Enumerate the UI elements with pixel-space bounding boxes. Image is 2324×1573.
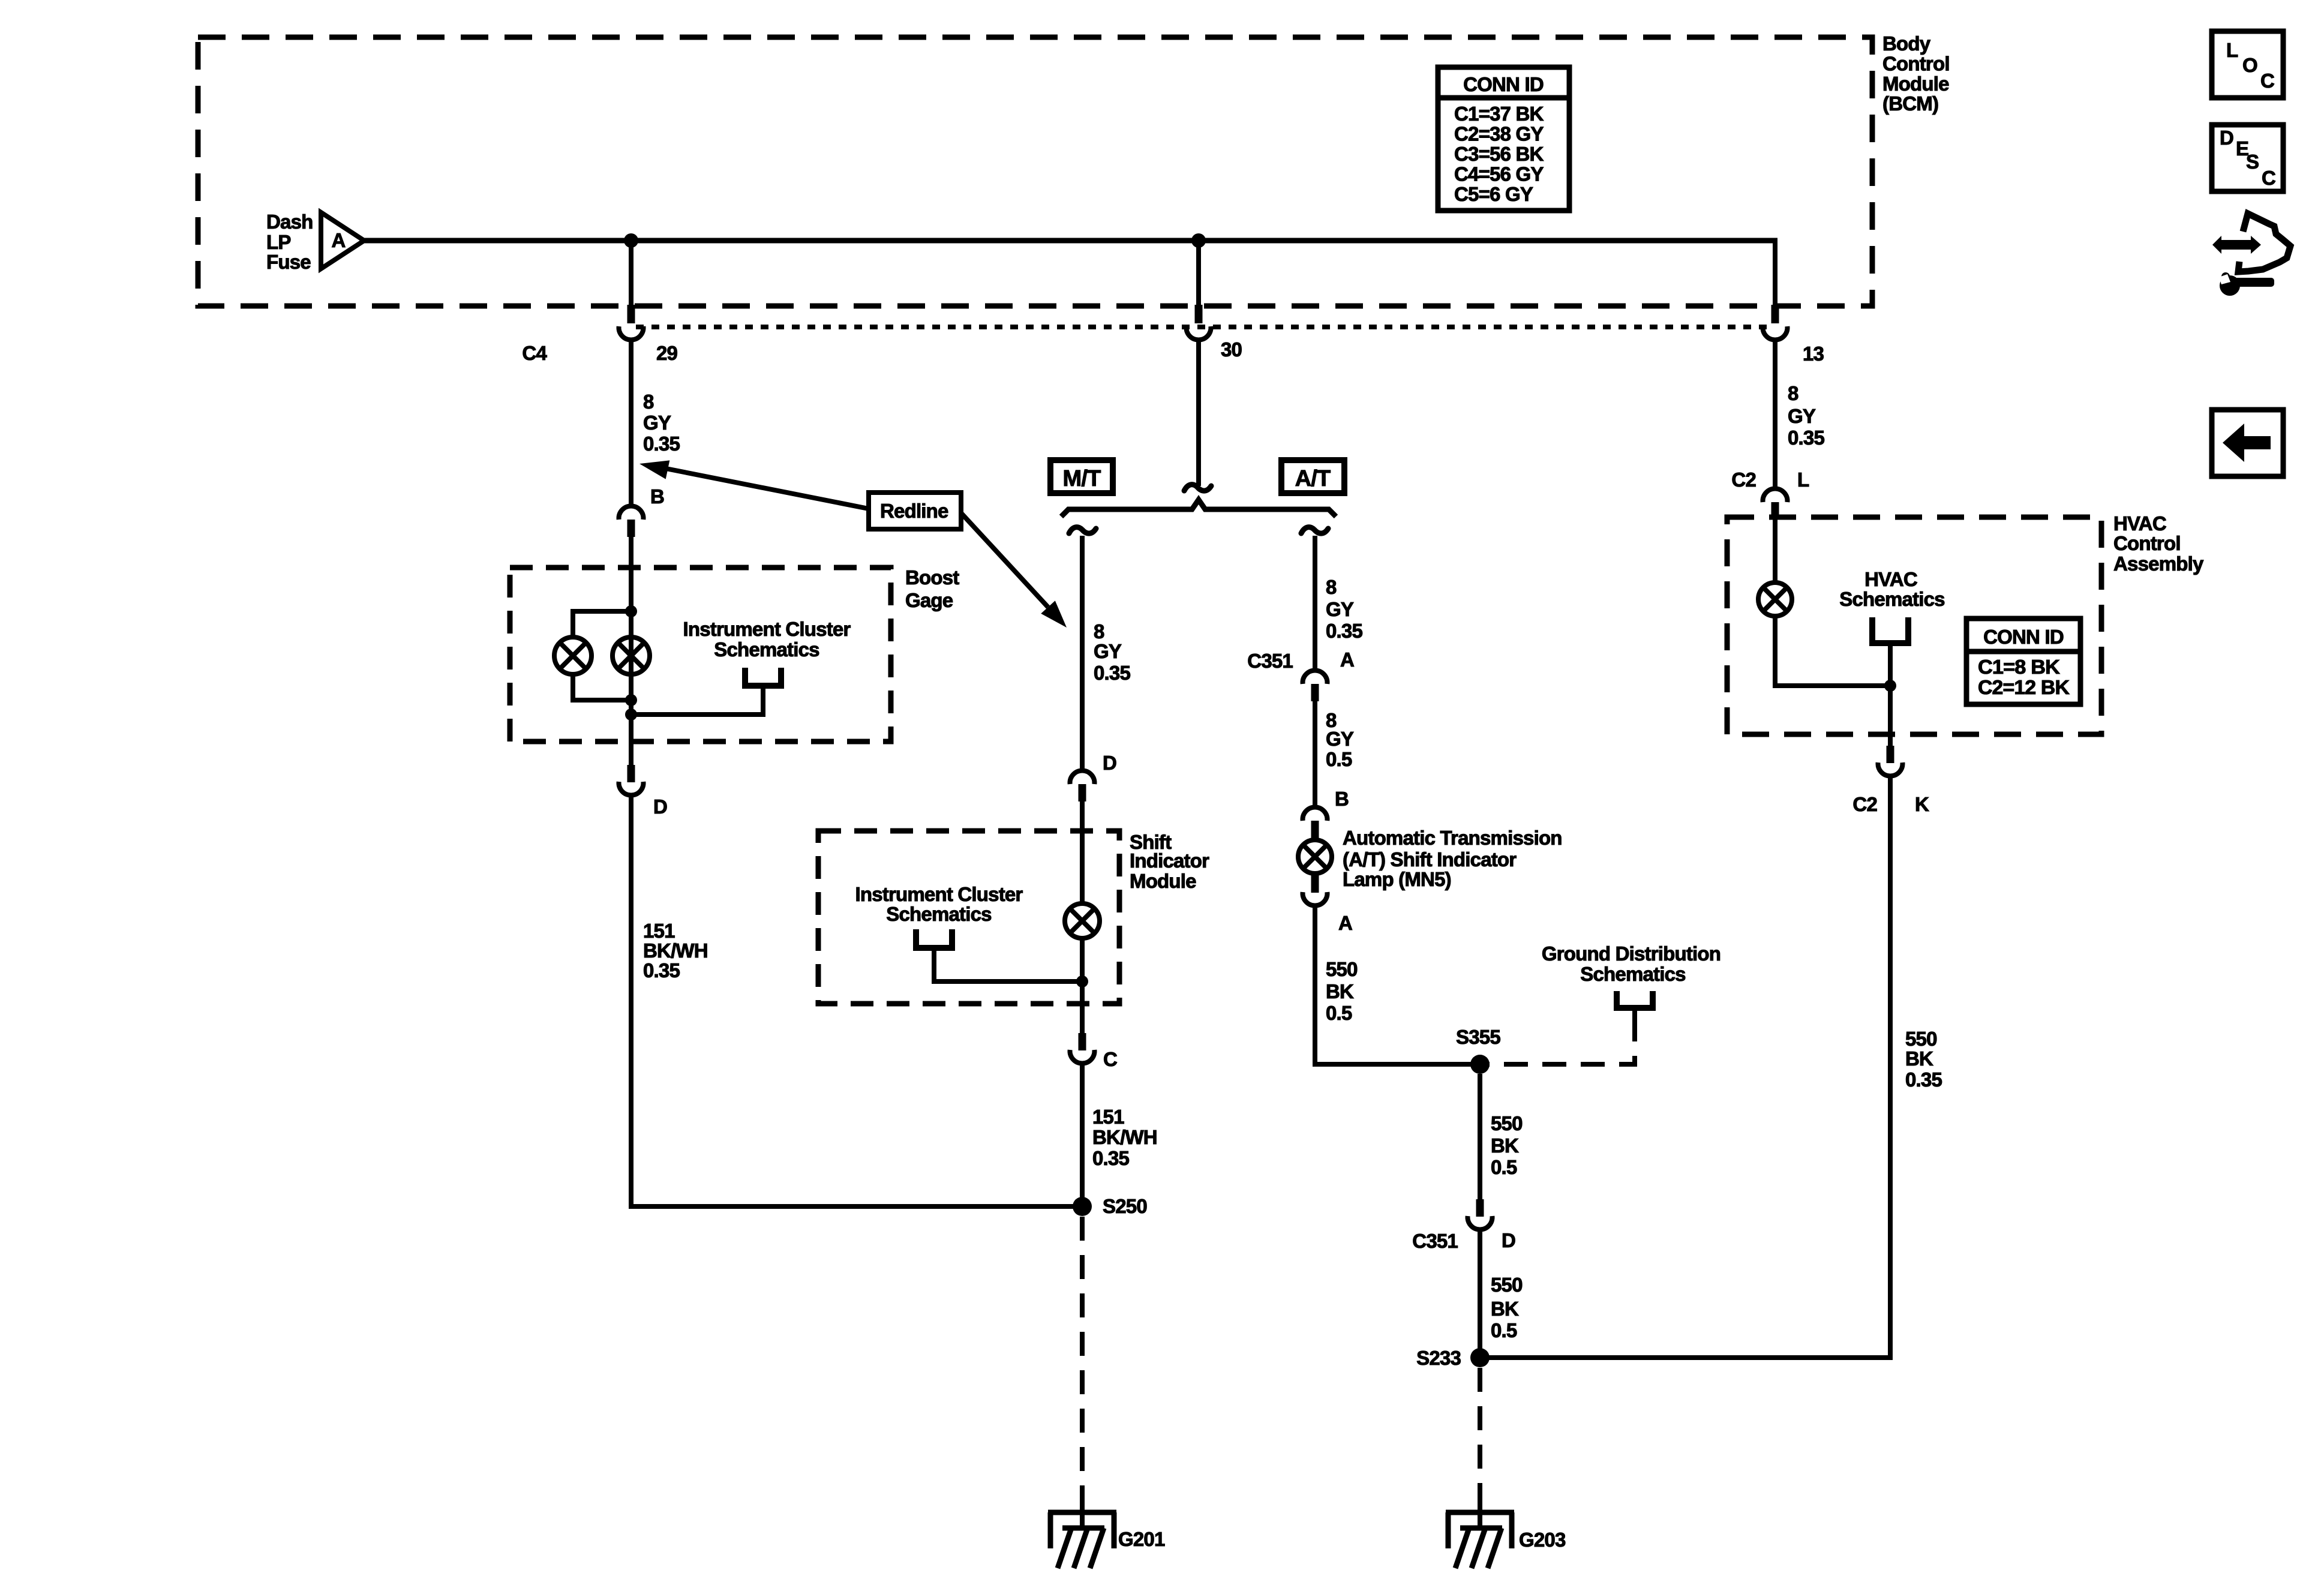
svg-text:Fuse: Fuse — [266, 251, 311, 273]
svg-text:151: 151 — [1092, 1106, 1124, 1128]
svg-text:C4=56 GY: C4=56 GY — [1454, 163, 1544, 185]
svg-text:C2=38 GY: C2=38 GY — [1454, 123, 1544, 145]
svg-text:GY: GY — [1326, 598, 1354, 620]
svg-text:Instrument Cluster: Instrument Cluster — [855, 883, 1023, 905]
svg-text:B: B — [1335, 788, 1349, 810]
svg-text:C351: C351 — [1412, 1230, 1458, 1252]
svg-text:Gage: Gage — [905, 589, 953, 611]
svg-text:L: L — [2226, 39, 2238, 61]
svg-text:8: 8 — [1094, 620, 1104, 643]
svg-text:Assembly: Assembly — [2113, 553, 2204, 575]
svg-text:A: A — [1338, 912, 1352, 934]
svg-text:0.35: 0.35 — [1326, 620, 1362, 642]
svg-text:C2=12 BK: C2=12 BK — [1978, 676, 2070, 698]
svg-text:0.35: 0.35 — [1905, 1068, 1942, 1091]
svg-text:Schematics: Schematics — [714, 638, 819, 661]
svg-text:CONN ID: CONN ID — [1983, 626, 2064, 648]
svg-text:151: 151 — [643, 920, 675, 942]
svg-text:C2: C2 — [1852, 793, 1877, 815]
svg-text:550: 550 — [1491, 1274, 1523, 1296]
svg-text:Indicator: Indicator — [1130, 849, 1209, 872]
svg-text:C351: C351 — [1247, 650, 1293, 672]
svg-text:GY: GY — [643, 412, 671, 434]
svg-text:30: 30 — [1221, 338, 1242, 361]
svg-text:0.35: 0.35 — [643, 959, 680, 981]
svg-text:C: C — [2260, 70, 2274, 92]
svg-text:A/T: A/T — [1295, 466, 1331, 491]
svg-text:Instrument Cluster: Instrument Cluster — [683, 618, 851, 640]
svg-text:8: 8 — [1788, 382, 1798, 404]
svg-text:D: D — [653, 795, 667, 818]
svg-text:HVAC: HVAC — [1864, 568, 1917, 590]
svg-text:C3=56 BK: C3=56 BK — [1454, 143, 1544, 165]
svg-text:D: D — [1103, 752, 1116, 774]
svg-text:G201: G201 — [1118, 1528, 1165, 1550]
svg-text:S355: S355 — [1456, 1026, 1500, 1048]
svg-text:G203: G203 — [1519, 1529, 1566, 1551]
svg-text:0.35: 0.35 — [643, 433, 680, 455]
svg-text:550: 550 — [1326, 958, 1358, 980]
svg-text:Dash: Dash — [266, 211, 313, 233]
svg-text:S250: S250 — [1103, 1195, 1147, 1217]
svg-text:0.5: 0.5 — [1491, 1156, 1517, 1178]
svg-text:0.35: 0.35 — [1092, 1147, 1129, 1169]
svg-text:Schematics: Schematics — [886, 903, 991, 925]
svg-text:C: C — [2262, 167, 2275, 189]
svg-text:GY: GY — [1326, 728, 1354, 750]
svg-text:(BCM): (BCM) — [1882, 92, 1938, 115]
svg-text:BK: BK — [1491, 1134, 1519, 1157]
svg-text:S233: S233 — [1416, 1347, 1461, 1369]
svg-text:CONN ID: CONN ID — [1463, 73, 1544, 95]
svg-text:13: 13 — [1803, 343, 1824, 365]
svg-text:Lamp (MN5): Lamp (MN5) — [1343, 868, 1451, 890]
svg-text:BK: BK — [1326, 980, 1354, 1002]
svg-text:0.5: 0.5 — [1326, 748, 1352, 770]
svg-text:(A/T) Shift Indicator: (A/T) Shift Indicator — [1343, 848, 1517, 870]
svg-text:A: A — [331, 229, 345, 251]
svg-text:C1=8 BK: C1=8 BK — [1978, 656, 2060, 678]
svg-text:GY: GY — [1788, 405, 1816, 427]
svg-text:Boost: Boost — [905, 566, 959, 589]
svg-text:8: 8 — [643, 391, 654, 413]
svg-text:Body: Body — [1882, 32, 1931, 55]
svg-text:LP: LP — [266, 231, 291, 253]
svg-text:BK: BK — [1905, 1047, 1933, 1070]
svg-text:Redline: Redline — [880, 500, 948, 522]
svg-text:D: D — [1502, 1229, 1515, 1251]
svg-text:C4: C4 — [522, 342, 547, 364]
svg-text:HVAC: HVAC — [2113, 512, 2166, 535]
svg-text:M/T: M/T — [1062, 466, 1101, 491]
svg-text:A: A — [1340, 649, 1354, 671]
svg-text:Module: Module — [1130, 870, 1196, 892]
svg-text:BK/WH: BK/WH — [643, 939, 708, 962]
svg-text:O: O — [2242, 54, 2257, 76]
svg-text:8: 8 — [1326, 576, 1337, 598]
svg-text:C1=37 BK: C1=37 BK — [1454, 103, 1544, 125]
svg-text:B: B — [650, 485, 664, 508]
svg-text:Ground Distribution: Ground Distribution — [1542, 942, 1721, 965]
svg-text:0.5: 0.5 — [1326, 1002, 1352, 1024]
svg-text:550: 550 — [1905, 1028, 1937, 1050]
svg-text:Module: Module — [1882, 73, 1949, 95]
svg-text:C5=6 GY: C5=6 GY — [1454, 183, 1533, 205]
svg-text:C: C — [1103, 1048, 1117, 1070]
svg-text:Control: Control — [1882, 52, 1950, 74]
svg-text:S: S — [2246, 151, 2259, 173]
svg-text:K: K — [1915, 793, 1929, 815]
svg-text:0.5: 0.5 — [1491, 1319, 1517, 1341]
svg-text:29: 29 — [656, 342, 678, 364]
svg-text:Schematics: Schematics — [1839, 588, 1944, 610]
svg-text:Automatic Transmission: Automatic Transmission — [1343, 827, 1562, 849]
svg-text:Schematics: Schematics — [1580, 963, 1685, 985]
svg-text:550: 550 — [1491, 1112, 1523, 1134]
svg-text:Control: Control — [2113, 532, 2181, 554]
svg-text:D: D — [2220, 127, 2233, 149]
svg-text:BK/WH: BK/WH — [1092, 1126, 1157, 1148]
svg-text:BK: BK — [1491, 1298, 1519, 1320]
svg-text:GY: GY — [1094, 640, 1122, 662]
svg-text:0.35: 0.35 — [1094, 662, 1130, 684]
svg-text:C2: C2 — [1731, 469, 1756, 491]
svg-text:L: L — [1797, 469, 1809, 491]
svg-text:0.35: 0.35 — [1788, 427, 1824, 449]
